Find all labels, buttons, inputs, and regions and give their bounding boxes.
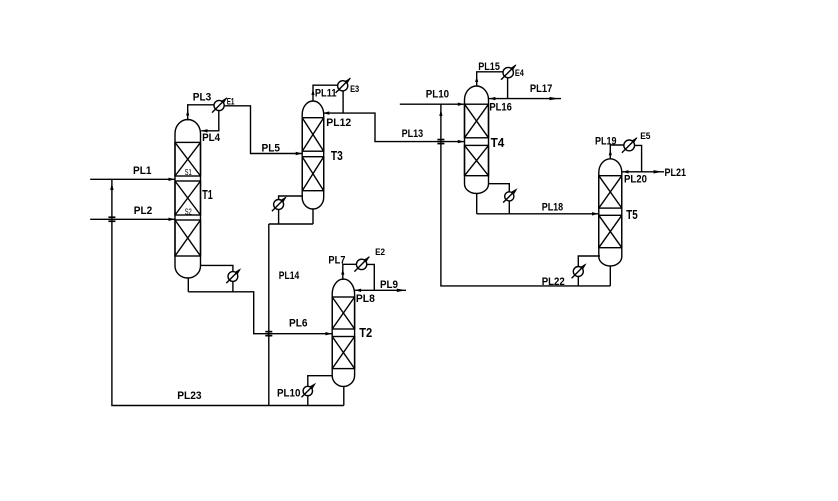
wire T2 reboiler side draw [308, 376, 332, 387]
condenser E4 [501, 64, 517, 80]
svg-text:PL3: PL3 [193, 92, 212, 104]
arrow up on T2 riser [341, 269, 344, 275]
arrow PL6 into T2 [325, 332, 332, 335]
arrow PL21 product [654, 170, 663, 173]
wire T2 bottom center drop [343, 387, 345, 406]
condenser E1 [212, 97, 227, 112]
svg-text:PL9: PL9 [380, 279, 398, 291]
condenser E3 [336, 78, 351, 93]
wire T2 reboiler return [307, 396, 309, 406]
svg-text:PL23: PL23 [177, 390, 201, 402]
junction break PL2 over recycle vertical [108, 216, 115, 222]
wire T4 reboiler side draw [489, 184, 510, 192]
svg-text:PL19: PL19 [595, 136, 617, 148]
wire T4 overhead riser PL15 [477, 72, 503, 87]
wire E2 outlet [367, 264, 375, 290]
wire PL18 to T5 [477, 213, 599, 215]
wire PL16 reflux / PL17 product [489, 98, 561, 100]
svg-text:E5: E5 [640, 131, 650, 141]
reboiler exchanger T3 [272, 196, 287, 211]
wire E1 to PL5 into T3 [224, 106, 302, 154]
svg-text:PL13: PL13 [402, 128, 424, 140]
arrow PL10 into T4 [458, 103, 465, 106]
arrow PL12 into T3 dome [323, 111, 329, 114]
wire PL1 feed line [90, 178, 174, 180]
wire E3 outlet drop [342, 91, 344, 113]
arrow up on T3 riser [311, 89, 314, 95]
svg-text:PL7: PL7 [328, 255, 345, 267]
svg-text:PL21: PL21 [665, 167, 687, 179]
wire T3 overhead riser PL11 [313, 85, 338, 101]
svg-text:PL16: PL16 [489, 102, 512, 114]
arrow up on recycle vertical [110, 183, 113, 190]
wire T3 bottoms header [269, 223, 313, 225]
svg-text:PL4: PL4 [202, 132, 221, 144]
svg-text:PL11: PL11 [315, 88, 337, 100]
wire T5 reboiler return [577, 277, 579, 286]
wire recycle vertical and PL23 bottom run [112, 179, 344, 405]
svg-text:PL2: PL2 [134, 205, 153, 217]
wire T1 reboiler return and bottoms [232, 281, 234, 291]
svg-text:E3: E3 [350, 84, 359, 94]
condenser E2 [354, 256, 370, 272]
arrow PL20 into T5 [622, 170, 628, 173]
reboiler exchanger T4 [503, 188, 517, 203]
condenser E5 [622, 137, 638, 153]
svg-text:PL17: PL17 [530, 83, 552, 95]
svg-text:T5: T5 [626, 208, 638, 222]
wire T3 reboiler side draw [279, 196, 303, 200]
wire T4 reboiler return [508, 201, 510, 214]
column T1 [175, 120, 201, 278]
svg-text:PL10: PL10 [426, 89, 449, 101]
arrow up on PL22 vertical [439, 109, 442, 116]
wire PL8 reflux / PL9 product [355, 289, 406, 291]
junction break PL13 over PL22 vertical [437, 139, 444, 145]
svg-text:PL20: PL20 [624, 174, 647, 186]
wire T1 overhead riser PL3 [188, 105, 214, 121]
arrow PL8 into T2 dome [355, 289, 361, 292]
arrow up on T4 riser [475, 76, 478, 82]
svg-text:E4: E4 [515, 68, 524, 78]
svg-text:PL10: PL10 [277, 388, 301, 400]
wire E4 outlet drop [507, 78, 509, 99]
svg-text:PL6: PL6 [289, 318, 308, 330]
svg-text:S2: S2 [185, 207, 193, 216]
reboiler exchanger T1 [226, 268, 241, 283]
svg-text:S1: S1 [185, 168, 193, 177]
wire T2 overhead riser PL7 [343, 264, 357, 280]
wire PL20 reflux / PL21 product [622, 171, 664, 173]
wire T1 reboiler side draw [201, 265, 233, 271]
arrow PL5 into T3 [296, 152, 302, 155]
junction break PL6 over PL14 vertical [265, 331, 272, 337]
arrow up on T5 riser [609, 150, 612, 156]
reboiler exchanger T2 PL10 [302, 383, 317, 398]
wire E5 outlet [635, 145, 642, 171]
wire T3 bottom center drop [312, 209, 314, 224]
svg-text:PL8: PL8 [356, 293, 375, 305]
wire T1 bottom center drop [187, 278, 189, 292]
arrow PL2 into T1 [169, 218, 175, 221]
wire T5 reboiler side draw [578, 256, 600, 267]
arrow PL1 into T1 [169, 178, 175, 181]
svg-text:PL12: PL12 [326, 117, 351, 129]
wire PL22 vertical from T5 bottoms to PL10 line [441, 104, 610, 286]
svg-text:PL18: PL18 [542, 201, 564, 213]
svg-text:T3: T3 [331, 149, 343, 163]
column T3 [302, 101, 324, 209]
wire T3 reboiler return [278, 210, 280, 225]
arrow PL16 into T4 [489, 97, 495, 100]
svg-text:T1: T1 [202, 188, 213, 202]
wire E1 outlet to PL4 reflux [201, 111, 219, 131]
column T2 [332, 279, 354, 386]
reboiler exchanger T5 [572, 263, 587, 278]
arrow up on T1 riser [186, 110, 189, 116]
wire T5 bottom center drop [609, 266, 611, 286]
column T4 [465, 86, 489, 193]
svg-text:PL15: PL15 [478, 61, 500, 73]
wire T4 bottom center drop [476, 194, 478, 214]
svg-text:E2: E2 [375, 247, 385, 257]
arrow PL13 into T4 [458, 140, 465, 143]
arrow PL18 into T5 [592, 212, 599, 215]
column T5 [599, 159, 622, 266]
wire T5 overhead riser PL19 [610, 145, 624, 159]
arrow PL9 product [397, 289, 407, 292]
svg-text:T2: T2 [359, 326, 372, 340]
svg-text:T4: T4 [491, 136, 505, 150]
arrow PL4 into T1 dome [201, 129, 207, 132]
svg-text:PL1: PL1 [133, 165, 152, 177]
wire PL14 vertical from T3 bottoms [268, 224, 270, 406]
svg-text:PL22: PL22 [542, 276, 565, 288]
wire PL2 feed line [90, 218, 174, 220]
wire T1 bottoms header [188, 292, 331, 334]
svg-text:PL5: PL5 [262, 142, 281, 154]
arrow PL17 product [550, 97, 559, 100]
wire PL12 reflux and PL13 run to T4 [323, 113, 464, 142]
svg-text:PL14: PL14 [279, 270, 300, 282]
wire PL10 feed to T4 [400, 103, 464, 105]
